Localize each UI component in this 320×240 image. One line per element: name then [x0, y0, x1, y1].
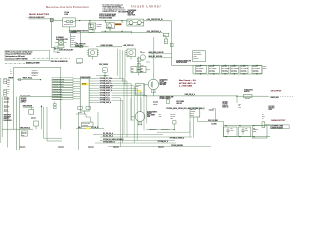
svg-text:U6 LOAD SW: U6 LOAD SW [82, 122, 91, 125]
svg-text:U7 LM5050-1: U7 LM5050-1 [56, 37, 64, 39]
svg-text:STBY_PGOOD: STBY_PGOOD [99, 64, 108, 66]
svg-text:SYSTEM_EN_5V: SYSTEM_EN_5V [100, 93, 110, 95]
svg-text:USB: USB [4, 92, 7, 94]
svg-text:INT: INT [7, 85, 9, 87]
svg-text:PGOOD_5V_A: PGOOD_5V_A [161, 127, 170, 130]
svg-text:TPS22990: TPS22990 [82, 125, 88, 127]
svg-text:MF-R1100 1.1A: MF-R1100 1.1A [64, 23, 73, 26]
svg-text:U11_MCU_CORE: U11_MCU_CORE [20, 95, 30, 97]
svg-text:5V0: 5V0 [7, 89, 9, 91]
svg-text:R2 100K: R2 100K [128, 24, 133, 26]
svg-text:MODULE_SH_P: MODULE_SH_P [53, 88, 62, 90]
svg-text:Q1: Q1 [89, 24, 91, 26]
svg-text:J9: J9 [262, 114, 264, 116]
svg-text:R23 4K7: R23 4K7 [31, 118, 36, 120]
svg-text:NOTE: psu documented at 4.74A,: NOTE: psu documented at 4.74A, all load [6, 50, 33, 53]
svg-text:SCL: SCL [7, 84, 10, 86]
svg-text:P2: P2 [10, 73, 12, 75]
svg-text:DMP3056: DMP3056 [115, 24, 121, 26]
svg-text:5V: 5V [262, 118, 264, 120]
svg-text:LQFP-32: LQFP-32 [21, 102, 27, 104]
svg-text:+19V_PROTECTED_IN: +19V_PROTECTED_IN [147, 19, 163, 21]
svg-text:10K: 10K [54, 49, 56, 51]
svg-text:SHIELD_GND: SHIELD_GND [270, 97, 278, 99]
svg-text:25V: 25V [132, 71, 134, 73]
svg-text:C4: C4 [165, 41, 167, 43]
svg-text:MODULE_SH_N: MODULE_SH_N [53, 91, 62, 93]
svg-text:STBY RAIL 5V ALWAYS-ON: STBY RAIL 5V ALWAYS-ON [51, 60, 68, 63]
svg-text:S 5V0: S 5V0 [71, 37, 75, 39]
svg-text:SCHOTTKY DIODE 5A 40V: SCHOTTKY DIODE 5A 40V [99, 13, 116, 16]
svg-text:+: + [10, 69, 11, 71]
svg-text:OUT: OUT [262, 116, 265, 118]
svg-text:SYSTEM_SHUNT_P: SYSTEM_SHUNT_P [100, 88, 112, 90]
svg-text:J EN: J EN [71, 39, 74, 41]
svg-text:T.b and Q2 ambient derating ru: T.b and Q2 ambient derating rule [102, 4, 123, 7]
svg-text:GND LUG: GND LUG [222, 106, 228, 108]
svg-text:VBUS PROT: VBUS PROT [4, 114, 12, 116]
svg-text:DRV: DRV [136, 86, 139, 88]
svg-text:Max Current: ~ 8 A: Max Current: ~ 8 A [179, 79, 196, 82]
svg-text:D1 SS54: D1 SS54 [97, 24, 102, 26]
svg-text:MODULE_5V MAIN: MODULE_5V MAIN [26, 62, 39, 65]
svg-text:VOUT_5V_RAW: VOUT_5V_RAW [208, 119, 218, 122]
svg-text:10U: 10U [132, 69, 134, 71]
svg-text:U4 LTC4359: U4 LTC4359 [193, 52, 200, 54]
svg-text:F1 10A: F1 10A [64, 11, 69, 14]
svg-text:FERRITE: FERRITE [253, 129, 258, 131]
svg-text:600R: 600R [253, 131, 256, 133]
svg-text:D-: D- [7, 93, 9, 95]
svg-text:DNP OPT: DNP OPT [176, 103, 182, 105]
svg-text:R SET1: R SET1 [71, 35, 76, 37]
svg-text:5V OUTPUT: 5V OUTPUT [271, 91, 282, 93]
svg-text:SWD_DEBUG_A: SWD_DEBUG_A [20, 127, 30, 130]
svg-text:FB1: FB1 [253, 127, 256, 129]
svg-text:SENSE: SENSE [153, 104, 157, 106]
svg-text:SYSTEM_GROUND: SYSTEM_GROUND [171, 145, 183, 147]
svg-text:LOAD_SW_EN_A_NET: LOAD_SW_EN_A_NET [59, 48, 73, 51]
svg-text:P-FET -30V: P-FET -30V [106, 27, 112, 29]
svg-text:SYSTEM_PG_5V: SYSTEM_PG_5V [100, 95, 110, 97]
svg-text:U10 SBY: U10 SBY [71, 32, 76, 34]
svg-text:SYSTEM_SHUNT_N: SYSTEM_SHUNT_N [100, 90, 112, 92]
svg-text:KEEPOUT: KEEPOUT [58, 147, 64, 149]
svg-text:SYSTEM_SYS_SDA: SYSTEM_SYS_SDA [100, 77, 112, 80]
svg-text:BSS138: BSS138 [140, 52, 145, 54]
svg-text:SH: SH [4, 94, 6, 96]
svg-text:USBLC6: USBLC6 [4, 118, 9, 120]
svg-text:GND: GND [7, 80, 10, 82]
svg-text:470U: 470U [230, 130, 233, 132]
svg-text:SYSTEM_VBUS_SNS: SYSTEM_VBUS_SNS [100, 85, 113, 87]
svg-text:100N: 100N [159, 116, 162, 118]
svg-text:+19V_SWITCHED_A: +19V_SWITCHED_A [147, 30, 161, 33]
svg-text:SYSTEM_FAULT_N: SYSTEM_FAULT_N [103, 141, 115, 144]
svg-text:SYSTEM_FLT_N: SYSTEM_FLT_N [100, 97, 110, 99]
svg-text:VREG_EN_A: VREG_EN_A [149, 127, 157, 130]
svg-text:MODULE_SCL_3V3: MODULE_SCL_3V3 [53, 81, 65, 83]
svg-text:C17: C17 [132, 67, 134, 69]
svg-text:U2 INA226 MON: U2 INA226 MON [80, 76, 90, 79]
svg-text:MODULE_PG_5V: MODULE_PG_5V [53, 96, 63, 98]
svg-text:C18: C18 [141, 67, 143, 69]
svg-text:R14 10K: R14 10K [77, 63, 82, 65]
svg-text:+1V8_STBY LDO: +1V8_STBY LDO [123, 45, 134, 47]
svg-text:25V: 25V [141, 71, 143, 73]
svg-text:SYSTEM_SYS_SCL: SYSTEM_SYS_SCL [100, 81, 112, 83]
svg-text:D+: D+ [7, 91, 9, 93]
svg-text:FUSE: FUSE [64, 14, 68, 16]
svg-text:KELVIN CONNECT: KELVIN CONNECT [160, 98, 171, 100]
svg-text:P1: P1 [10, 71, 12, 73]
svg-text:Q5 DISCHARGE: Q5 DISCHARGE [147, 110, 157, 113]
svg-text:5V/3A OUTPUT: 5V/3A OUTPUT [271, 119, 286, 122]
svg-text:PWR IN: PWR IN [8, 78, 13, 80]
svg-text:I2C_SCL 4: I2C_SCL 4 [32, 75, 38, 77]
svg-text:SHDN TIED HIGH: SHDN TIED HIGH [176, 62, 187, 64]
svg-text:KEEPOUT: KEEPOUT [113, 147, 119, 149]
svg-text:STM32G0: STM32G0 [21, 100, 27, 102]
svg-text:TPS565: TPS565 [191, 111, 196, 113]
svg-text:MODULE_FLT_N: MODULE_FLT_N [53, 98, 63, 100]
svg-text:LOAD_SW_5V_A: LOAD_SW_5V_A [185, 93, 195, 96]
svg-text:DNP: DNP [22, 135, 25, 137]
svg-text:SS54: SS54 [89, 27, 92, 29]
svg-text:J5-6 SH: J5-6 SH [4, 111, 9, 113]
svg-text:J5: J5 [4, 90, 6, 92]
svg-text:CENTER POSITIVE: CENTER POSITIVE [271, 127, 283, 129]
svg-text:10U: 10U [141, 69, 143, 71]
svg-text:ACTIVE LIMIT + B: ACTIVE LIMIT + B [179, 82, 196, 85]
svg-text:R11: R11 [164, 35, 166, 37]
svg-text:Inrush Limiter: Inrush Limiter [131, 5, 162, 9]
svg-text:C41 22U: C41 22U [209, 110, 214, 112]
svg-text:Reverse-Current Protection: Reverse-Current Protection [46, 5, 89, 9]
svg-text:SYNC: SYNC [191, 114, 195, 116]
svg-text:STBY: STBY [57, 52, 60, 54]
svg-text:U5 BUCK: U5 BUCK [191, 109, 197, 111]
svg-text:+3V3_STBY LDO: +3V3_STBY LDO [75, 44, 86, 46]
svg-text:CTRL: CTRL [193, 56, 197, 58]
svg-text:KEEPOUT: KEEPOUT [88, 147, 94, 149]
svg-text:C9 1uF: C9 1uF [137, 24, 141, 26]
svg-text:KEEPOUT: KEEPOUT [158, 147, 164, 149]
svg-text:SYS_EN_5V: SYS_EN_5V [91, 127, 99, 129]
svg-text:470U: 470U [245, 130, 248, 132]
svg-text:J4: J4 [4, 79, 6, 81]
svg-text:BULK: BULK [263, 65, 266, 67]
svg-text:U11 MCU: U11 MCU [21, 98, 27, 100]
svg-text:4 + RDS GAIN: 4 + RDS GAIN [179, 85, 193, 88]
svg-text:MODULE_VB_SNS: MODULE_VB_SNS [53, 86, 64, 88]
svg-text:ESD DIODES: ESD DIODES [4, 120, 12, 122]
svg-text:MAIN ADAPTER: MAIN ADAPTER [29, 13, 49, 16]
svg-text:LOOP: LOOP [268, 109, 272, 111]
svg-text:SYSTEM_RET_B: SYSTEM_RET_B [158, 141, 168, 143]
svg-text:KEEPOUT: KEEPOUT [20, 147, 26, 149]
svg-text:MODULE_EN_5V: MODULE_EN_5V [53, 93, 63, 95]
svg-text:U3 GATE: U3 GATE [136, 83, 141, 86]
svg-text:I2C_SDA_LVL_A: I2C_SDA_LVL_A [103, 132, 113, 135]
svg-text:DNP: DNP [170, 117, 173, 119]
svg-text:R16: R16 [103, 70, 106, 72]
svg-text:L1 4.7UH: L1 4.7UH [211, 124, 217, 126]
svg-text:NTC: NTC [238, 107, 241, 109]
svg-text:MF-USB: MF-USB [245, 98, 250, 100]
svg-text:MSOP-8: MSOP-8 [193, 58, 198, 60]
svg-text:LTC4359_GATE_DRIVE_NET_AND_RET: LTC4359_GATE_DRIVE_NET_AND_RETURN_PAIR_B [166, 107, 204, 110]
svg-text:J4-5 INT: J4-5 INT [4, 102, 9, 104]
svg-text:100R: 100R [147, 116, 150, 118]
svg-text:SWCLK_TMS_A: SWCLK_TMS_A [23, 77, 33, 80]
